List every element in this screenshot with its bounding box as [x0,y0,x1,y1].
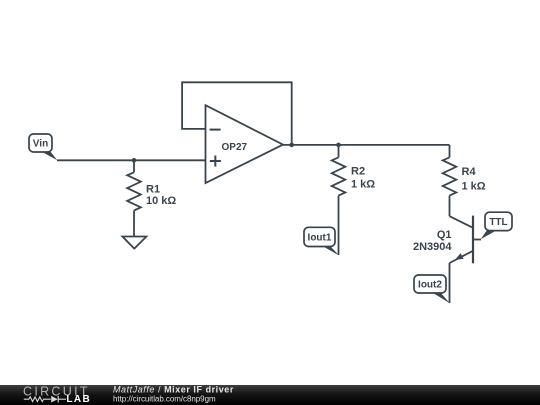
wire Vin to op-amp + input [57,159,206,161]
resistor R4 [443,157,457,195]
resistor R1 [127,172,141,210]
wire R1 bottom lead [133,211,135,237]
wire op-amp output [283,144,450,146]
flag Iout1 [304,227,335,246]
svg-text:TTL: TTL [489,217,507,228]
svg-text:2N3904: 2N3904 [413,241,452,253]
value label R4 1 kOhm [462,166,486,192]
flag TTL [485,212,512,230]
op-amp minus input symbol [210,129,221,131]
node junction at R1 [132,158,137,163]
ground [122,237,146,249]
svg-text:R1: R1 [146,183,160,195]
flag TTL tail [481,230,498,240]
logo resistor-diode glyph [24,396,66,403]
svg-text:1 kΩ: 1 kΩ [462,180,486,192]
svg-text:OP27: OP27 [222,142,248,153]
wire emitter to Iout2 [449,263,451,303]
node R2 junction [336,143,341,148]
svg-text:Iout2: Iout2 [418,280,442,291]
node output junction [289,143,294,148]
op-amp U1 triangle [206,105,284,183]
wire R2 bottom lead to Iout1 [338,196,340,255]
svg-text:Vin: Vin [33,139,48,150]
flag Iout1 tail [322,246,340,256]
svg-text:10 kΩ: 10 kΩ [146,195,176,207]
op-amp plus input symbol [210,156,221,167]
transistor Q1 collector lead [450,216,474,228]
flag Vin tail [40,151,58,161]
svg-text:Q1: Q1 [437,229,452,241]
transistor Q1 emitter arrow [455,253,464,260]
footer bar [0,385,540,405]
value label R1 10 kOhm [146,183,176,207]
flag Vin [29,134,52,152]
wire R4 bottom lead to collector [449,196,451,217]
wire feedback loop [182,82,292,145]
flag Iout2 [414,275,446,293]
svg-text:http://circuitlab.com/c8np9gm: http://circuitlab.com/c8np9gm [113,394,216,403]
resistor R2 [332,157,346,195]
svg-text:R2: R2 [351,166,365,178]
wire R4 corner lead [449,145,451,158]
svg-text:LAB: LAB [66,394,91,405]
wire R1 top lead [133,160,135,172]
wire R2 top lead [338,145,340,158]
value label R2 1 kOhm [351,166,375,191]
svg-text:1 kΩ: 1 kΩ [351,178,375,190]
label Q1 2N3904 [413,229,452,253]
svg-text:Iout1: Iout1 [308,233,332,244]
svg-text:MattJaffe / Mixer IF driver: MattJaffe / Mixer IF driver [113,385,234,395]
transistor Q1 base bar [472,216,474,264]
flag Iout2 tail [432,292,450,303]
transistor Q1 emitter lead [450,251,474,263]
svg-text:R4: R4 [462,166,477,178]
transistor Q1 base lead [473,239,481,241]
